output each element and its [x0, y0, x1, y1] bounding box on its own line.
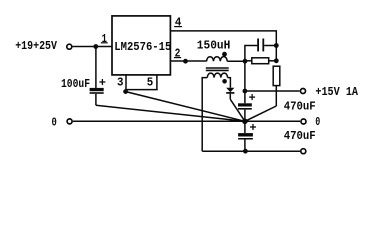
capacitor C-in 100uF plus sign: [99, 79, 105, 85]
terminal +19..25V input: [67, 44, 72, 49]
capacitor C-in 100uF plates: [90, 88, 104, 91]
wire diode to ground node diagonal: [230, 99, 245, 121]
node +15V junction: [243, 89, 248, 94]
wire C-in to ground node diagonal: [96, 105, 245, 121]
svg-text:+15V 1A: +15V 1A: [315, 85, 358, 99]
svg-text:470uF: 470uF: [284, 99, 316, 113]
wire bottom winding left lead to negative rail: [202, 78, 207, 152]
resistor R2 vertical: [273, 66, 280, 85]
wire +15V rail: [245, 90, 300, 92]
svg-text:3: 3: [117, 76, 124, 90]
wire winding out to node A: [227, 60, 245, 62]
svg-text:2: 2: [175, 47, 181, 61]
capacitor C1 470uF plus sign: [249, 94, 255, 100]
wire bottom winding right lead to diode: [228, 78, 231, 88]
wire feedback cap right lead: [264, 45, 276, 47]
diode D1: [226, 88, 234, 93]
node feedback cap right: [274, 43, 279, 48]
wire input to pin1: [73, 46, 112, 48]
node ground center: [242, 119, 248, 125]
node negative rail junction: [243, 149, 248, 154]
node input junction: [93, 44, 98, 49]
terminal +15V: [301, 89, 306, 94]
svg-text:1: 1: [102, 32, 107, 46]
wire pin 2 output: [170, 60, 206, 62]
wire pin 3: [125, 75, 127, 90]
inductor core lines: [206, 67, 229, 69]
svg-text:LM2576-15: LM2576-15: [114, 40, 171, 54]
op IC U1 LM2576-15 box: [112, 16, 170, 75]
svg-text:470uF: 470uF: [284, 129, 316, 143]
inductor L1 top winding: [207, 57, 228, 62]
node on pin2 wire: [183, 59, 188, 64]
resistor R-fb horizontal: [245, 60, 252, 62]
svg-text:5: 5: [147, 75, 154, 89]
wire node A up to feedback cap: [245, 46, 257, 62]
node pin3/5 ground stub: [123, 89, 128, 94]
node phasing dot bottom winding: [222, 79, 227, 84]
terminal 0 left: [67, 119, 72, 124]
wire R2 to ground node diagonal: [245, 106, 276, 121]
wire pin 4 feedback top: [170, 31, 276, 61]
wire R2 bottom crossing +15V rail: [275, 86, 277, 106]
capacitor C2 470uF plates: [238, 133, 253, 136]
wire node A down to +15V rail: [244, 61, 246, 103]
node feedback resistor right: [274, 58, 279, 63]
wire C2 bottom to negative rail: [244, 140, 246, 152]
capacitor C1 470uF plates: [238, 103, 252, 106]
svg-text:+19+25V: +19+25V: [15, 39, 57, 53]
svg-text:150uH: 150uH: [197, 39, 231, 53]
wire pin 5: [156, 75, 158, 90]
wire ground node down to C2: [244, 121, 246, 133]
terminal negative output: [301, 149, 306, 154]
svg-text:0: 0: [52, 115, 57, 129]
wire negative rail: [202, 150, 300, 152]
svg-text:0: 0: [315, 115, 320, 129]
svg-text:4: 4: [175, 16, 182, 30]
wire pin3/5 to ground node diagonal: [126, 92, 245, 122]
wire C1 bottom to ground node: [244, 110, 246, 122]
wire ground rail: [73, 120, 300, 122]
terminal 0 right: [301, 119, 306, 124]
node phasing dot top winding: [222, 52, 227, 57]
capacitor C2 470uF plus sign: [250, 124, 256, 130]
wire down to C-in: [95, 47, 97, 89]
svg-text:100uF: 100uF: [61, 77, 90, 91]
wire diode cathode down: [229, 94, 231, 100]
wire C-in bottom: [95, 94, 97, 106]
inductor L1 bottom winding: [207, 73, 227, 78]
capacitor C-fb plates: [257, 39, 259, 52]
wire pins 3-5 join: [125, 89, 157, 91]
node A output of winding: [243, 59, 248, 64]
